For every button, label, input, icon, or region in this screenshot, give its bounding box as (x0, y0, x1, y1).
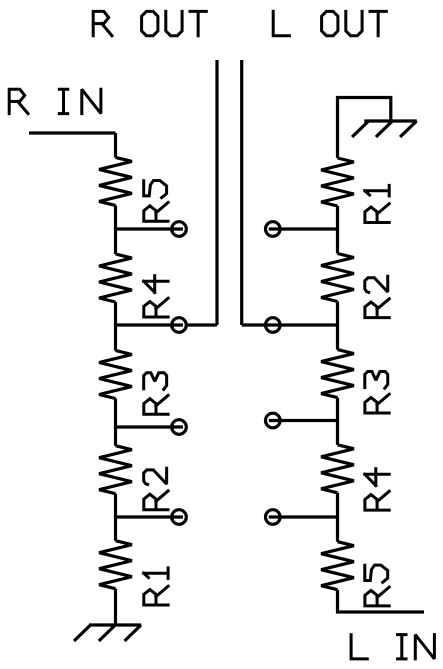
ground (top right) (352, 121, 417, 137)
wire left ladder top segment (114, 133, 117, 157)
resistor R1 (left) (99, 541, 132, 589)
wire tap R OUT junction (left R4/R3) (116, 323, 218, 326)
resistor R1 (right) (321, 158, 354, 206)
terminal circle node 3 right (266, 413, 281, 428)
wire left ladder R2-R1 (114, 494, 117, 541)
wire tap L OUT junction (right R2/R3) (242, 323, 338, 326)
resistor R5 (right) (321, 542, 354, 590)
wire left ladder R4-R3 (114, 302, 117, 351)
label R IN (9, 89, 28, 113)
wire R IN horizontal (29, 131, 116, 134)
wire stub node 4 (left R2/R1) (116, 515, 184, 518)
label R3 (right) (365, 394, 389, 413)
terminal circle node 1 right (266, 222, 281, 237)
wire left ladder bottom to ground (114, 589, 117, 625)
wire stub node 3 (left R3/R2) (116, 425, 184, 428)
resistor R5 (left) (99, 157, 132, 205)
label R3 (left) (144, 395, 168, 414)
label R2 (left) (144, 491, 168, 510)
resistor R2 (right) (321, 254, 354, 302)
label L OUT (273, 11, 289, 35)
wire stub node 1 (right R1/R2) (269, 227, 338, 230)
resistor R2 (left) (99, 446, 132, 494)
label R5 (left) (144, 203, 168, 222)
wire right ladder R1-R2 (336, 206, 339, 254)
label R4 (right) (365, 491, 389, 510)
resistor R4 (left) (99, 254, 132, 302)
terminal circle node 4 right (266, 510, 281, 525)
resistor R3 (left) (99, 351, 132, 399)
label R5 (right) (365, 587, 389, 606)
terminal circle node 1 left (172, 222, 187, 237)
resistor R3 (right) (321, 350, 354, 398)
label R OUT (93, 11, 112, 35)
wire stub node 1 (left R5/R4) (116, 227, 184, 230)
ground (bottom left) (74, 625, 141, 641)
wire left ladder R5-R4 (114, 205, 117, 254)
wire right ladder top loop to ground (338, 98, 391, 159)
wire right ladder R4-R5 (336, 493, 339, 542)
wire stub node 3 (right R3/R4) (269, 419, 338, 422)
terminal circle node 3 left (172, 420, 187, 435)
label R4 (left) (144, 298, 168, 317)
label R2 (right) (365, 299, 389, 318)
terminal circle node 4 left (172, 510, 187, 525)
wire stub node 4 (right R4/R5) (269, 515, 338, 518)
terminal circle node 2 left (172, 318, 187, 333)
wire R OUT vertical (215, 60, 218, 325)
label R1 (right) (365, 204, 389, 223)
label L IN (351, 635, 367, 659)
label R1 (left) (144, 586, 168, 605)
wire right ladder R2-R3 (336, 302, 339, 350)
wire L OUT vertical (240, 60, 243, 325)
wire right ladder bottom + L IN horizontal (338, 590, 425, 612)
terminal circle node 2 right (266, 318, 281, 333)
resistor R4 (right) (321, 445, 354, 493)
wire left ladder R3-R2 (114, 399, 117, 446)
wire right ladder R3-R4 (336, 398, 339, 445)
